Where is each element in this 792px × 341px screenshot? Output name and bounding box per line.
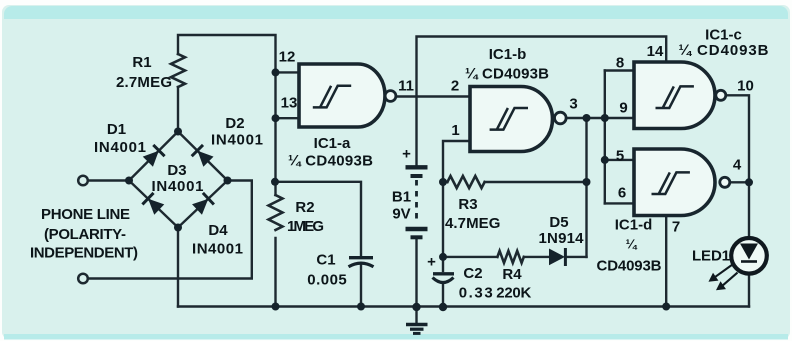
schmitt symbol IC1-d <box>652 172 690 194</box>
wire top-left: R1 top to pins 12/13 rail <box>178 35 276 195</box>
svg-text:R2: R2 <box>295 199 314 216</box>
svg-text:0.005: 0.005 <box>307 272 347 289</box>
svg-text:+: + <box>402 146 411 163</box>
svg-text:12: 12 <box>279 49 296 66</box>
wire R1 bottom to bridge top <box>177 87 179 132</box>
terminal phone line bottom <box>78 274 88 284</box>
wire node down to LED top <box>748 182 750 238</box>
svg-text:IN4001: IN4001 <box>94 139 146 156</box>
wire ground rail (bottom bus) <box>178 305 749 307</box>
svg-text:10: 10 <box>737 78 754 95</box>
LED1 arrows <box>710 265 738 290</box>
capacitor C1 <box>349 258 374 267</box>
svg-text:1: 1 <box>451 122 459 139</box>
svg-text:11: 11 <box>398 78 414 95</box>
svg-text:4.7MEG: 4.7MEG <box>445 215 501 232</box>
battery B1 plates <box>406 167 428 237</box>
svg-text:220K: 220K <box>496 285 531 302</box>
op-amp gate IC1-a <box>299 64 385 127</box>
resistor R2 <box>269 195 283 230</box>
svg-text:IN4001: IN4001 <box>152 178 204 195</box>
svg-text:IC1-c: IC1-c <box>705 27 742 44</box>
svg-text:INDEPENDENT): INDEPENDENT) <box>30 245 138 262</box>
svg-text:6: 6 <box>618 185 626 202</box>
svg-text:3: 3 <box>569 96 577 113</box>
svg-text:D3: D3 <box>167 162 186 179</box>
op-amp gate IC1-c <box>634 62 715 129</box>
svg-text:LED1: LED1 <box>692 248 730 265</box>
svg-text:B1: B1 <box>392 189 411 206</box>
wire pin 12 stub <box>276 71 301 73</box>
op-amp gate IC1-d <box>634 149 715 216</box>
bubble IC1-d <box>720 177 730 187</box>
diode D2 <box>192 145 214 167</box>
svg-text:0.33: 0.33 <box>459 285 493 302</box>
diode bridge diamond wires <box>129 132 228 228</box>
wire C2/R4/D5 row <box>443 256 587 258</box>
wire node to C1 top <box>276 182 362 256</box>
svg-text:IN4001: IN4001 <box>192 241 243 258</box>
wire IC1-b output to IC1-c pin 9 <box>566 117 634 119</box>
svg-text:D2: D2 <box>225 115 244 132</box>
LED1 <box>731 238 767 274</box>
diode D3 <box>142 193 164 215</box>
svg-text:5: 5 <box>616 148 624 165</box>
ground stub <box>415 307 417 323</box>
wire pin 8 stub <box>605 69 634 71</box>
svg-text:CD4093B: CD4093B <box>597 258 662 275</box>
wire IC1-c output down to pin 4 node <box>726 95 749 182</box>
svg-text:14: 14 <box>647 43 664 60</box>
resistor R4 <box>497 251 523 263</box>
wire pin 7 down to bus <box>665 216 667 307</box>
diode D1 <box>142 145 164 167</box>
svg-text:D1: D1 <box>107 121 126 138</box>
svg-text:¼: ¼ <box>626 237 638 252</box>
svg-text:9V: 9V <box>392 206 410 223</box>
svg-text:D4: D4 <box>208 222 228 239</box>
schmitt symbol IC1-c <box>656 86 694 108</box>
bubble IC1-b <box>555 112 567 124</box>
svg-text:1MEG: 1MEG <box>287 218 324 235</box>
svg-text:C2: C2 <box>463 265 482 282</box>
svg-text:1N914: 1N914 <box>539 230 585 247</box>
resistor R1 <box>171 54 185 87</box>
svg-text:IC1-b: IC1-b <box>489 46 527 63</box>
capacitor C2 <box>433 274 455 283</box>
svg-text:+: + <box>427 254 436 271</box>
wire bridge bottom to ground rail <box>177 228 179 307</box>
svg-text:R3: R3 <box>458 196 477 213</box>
wire C2 bottom stub <box>442 285 444 307</box>
schmitt symbol IC1-a <box>313 86 351 108</box>
wire pin 6 stub <box>605 202 634 204</box>
ground <box>406 325 428 334</box>
wire C1 bottom to bus <box>360 265 362 307</box>
svg-text:¼ CD4093B: ¼ CD4093B <box>679 42 769 59</box>
wire vertical from IC1-b output down through R3 to D5 row <box>585 118 587 257</box>
bubble IC1-c <box>716 90 726 100</box>
svg-text:R4: R4 <box>502 266 522 283</box>
terminal phone line top <box>78 176 88 186</box>
wire pin 13 stub <box>276 117 301 119</box>
svg-text:¼ CD4093B: ¼ CD4093B <box>465 66 549 83</box>
svg-text:(POLARITY-: (POLARITY- <box>44 226 126 243</box>
svg-text:D5: D5 <box>549 214 568 231</box>
svg-text:IC1-d: IC1-d <box>615 217 653 234</box>
svg-text:PHONE LINE: PHONE LINE <box>41 206 130 223</box>
wire LED bottom to bus <box>748 274 750 307</box>
svg-text:8: 8 <box>616 55 624 72</box>
diode D4 <box>191 193 213 215</box>
svg-text:2.7MEG: 2.7MEG <box>116 74 172 91</box>
svg-text:¼ CD4093B: ¼ CD4093B <box>288 153 373 170</box>
wire terminal2 to bridge right corner <box>88 181 252 279</box>
resistor R3 <box>447 176 484 188</box>
diode D5 <box>549 249 565 266</box>
svg-text:4: 4 <box>733 157 742 174</box>
svg-text:IC1-a: IC1-a <box>314 135 351 152</box>
svg-text:IN4001: IN4001 <box>211 132 263 149</box>
wire inputs tie rail pins 8/9/5/6 <box>604 71 606 204</box>
svg-text:C1: C1 <box>316 252 335 269</box>
wire battery rail: B1 plus up, across top, down to pin 14 <box>417 37 667 166</box>
wire C2 top stub <box>442 257 444 271</box>
wire terminal1 to bridge left corner <box>88 179 129 181</box>
svg-text:2: 2 <box>451 78 459 95</box>
op-amp gate IC1-b <box>470 87 553 152</box>
wire battery bottom to bus <box>415 239 417 307</box>
wire R3 row <box>443 181 587 183</box>
schmitt symbol IC1-b <box>490 108 528 130</box>
wire pin 1 of IC1-b down to R3/C2 node <box>443 141 470 257</box>
bubble IC1-a <box>385 91 396 102</box>
svg-text:13: 13 <box>281 95 298 112</box>
svg-text:7: 7 <box>672 219 680 236</box>
wire IC1-d output to node <box>730 181 749 183</box>
wire pin 5 stub <box>605 159 634 161</box>
wire R2 bottom to bus <box>274 238 276 307</box>
svg-text:R1: R1 <box>132 54 151 71</box>
wire IC1-a output to IC1-b pin 2 <box>396 95 470 97</box>
svg-text:9: 9 <box>619 100 627 117</box>
